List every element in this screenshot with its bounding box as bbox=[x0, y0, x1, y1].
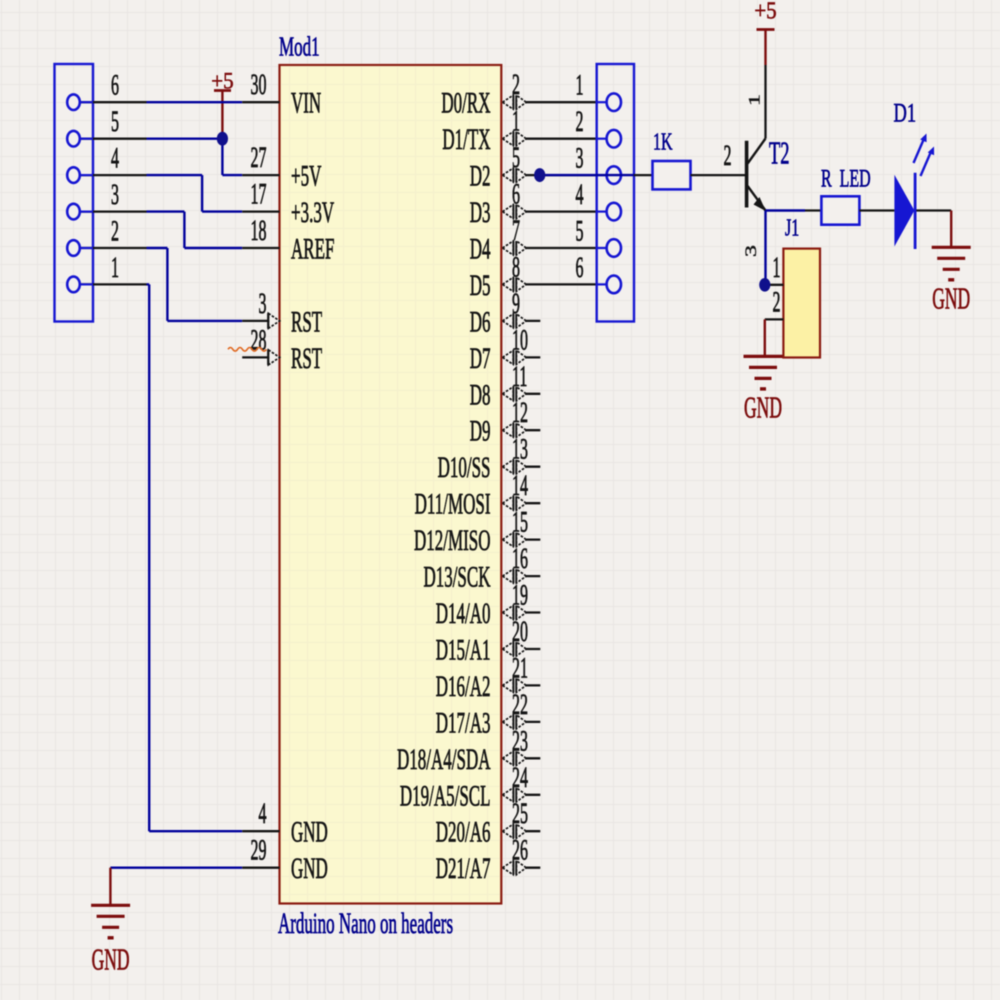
svg-text:6: 6 bbox=[576, 252, 584, 284]
svg-text:2: 2 bbox=[773, 287, 781, 319]
power +5 symbol (right) bbox=[754, 0, 776, 65]
svg-text:17: 17 bbox=[251, 179, 267, 211]
svg-text:21: 21 bbox=[512, 653, 528, 685]
svg-text:5: 5 bbox=[111, 106, 119, 138]
svg-text:D12/MISO: D12/MISO bbox=[414, 524, 490, 557]
svg-text:20: 20 bbox=[512, 616, 528, 648]
svg-text:D11/MOSI: D11/MOSI bbox=[415, 488, 491, 521]
Mod1 pin 7 D4 bbox=[470, 215, 597, 266]
Mod1 pin 6 D3 bbox=[470, 179, 597, 230]
wire conn pin5 to +5 junction bbox=[147, 137, 223, 139]
Mod1 pin 17 +3.3V bbox=[242, 179, 334, 230]
wire junction to +5V pin bbox=[222, 139, 242, 175]
wire T2 emitter down to J1 pin1 bbox=[764, 211, 766, 285]
svg-text:7: 7 bbox=[512, 215, 520, 247]
Mod1 pin 15 D12/MISO bbox=[414, 507, 540, 558]
svg-text:15: 15 bbox=[512, 507, 528, 539]
svg-text:D5: D5 bbox=[470, 269, 491, 302]
ground J1 bbox=[744, 356, 783, 424]
svg-text:12: 12 bbox=[512, 397, 528, 429]
Mod1 pin 23 D18/A4/SDA bbox=[397, 725, 540, 776]
svg-text:6: 6 bbox=[111, 70, 119, 102]
left connector pin 5 bbox=[67, 106, 146, 146]
svg-text:+5: +5 bbox=[211, 68, 233, 94]
Mod1 pin 16 D13/SCK bbox=[423, 543, 540, 594]
Mod1 pin 4 GND bbox=[242, 798, 328, 849]
Mod1 pin 21 D16/A2 bbox=[436, 653, 541, 704]
module body inner grid show-through bbox=[281, 66, 500, 902]
J1 pin 1 bbox=[765, 252, 784, 285]
Mod1 pin 5 D2 bbox=[470, 142, 597, 193]
wire D2 net to 1K resistor bbox=[540, 174, 653, 176]
svg-text:26: 26 bbox=[512, 835, 528, 867]
svg-text:1: 1 bbox=[111, 252, 119, 284]
svg-text:22: 22 bbox=[512, 689, 528, 721]
right connector pin 2 bbox=[576, 106, 621, 147]
svg-text:11: 11 bbox=[512, 361, 527, 393]
Mod1 pin 9 D6 bbox=[470, 288, 541, 339]
svg-text:+5: +5 bbox=[754, 0, 776, 24]
svg-text:D1/TX: D1/TX bbox=[442, 123, 490, 156]
svg-text:D0/RX: D0/RX bbox=[441, 87, 490, 120]
connector P1 (left 6-pin header) body bbox=[55, 64, 94, 322]
left connector pin 2 bbox=[67, 216, 146, 256]
wire conn pin6 to VIN bbox=[147, 101, 243, 103]
wire R_LED to LED anode bbox=[859, 209, 894, 211]
resistor 1K bbox=[653, 127, 691, 189]
svg-text:1K: 1K bbox=[653, 127, 673, 156]
svg-text:+3.3V: +3.3V bbox=[291, 196, 334, 229]
Mod1 pin 18 AREF bbox=[242, 215, 334, 266]
error marker squiggle under pin 28 bbox=[228, 348, 266, 352]
power +5 symbol (left) bbox=[211, 68, 233, 139]
Mod1 pin 11 D8 bbox=[470, 361, 541, 412]
svg-text:RST: RST bbox=[291, 306, 322, 339]
svg-text:D8: D8 bbox=[470, 379, 491, 412]
Mod1 pin 29 GND bbox=[242, 835, 328, 886]
svg-text:GND: GND bbox=[744, 392, 782, 425]
svg-text:D16/A2: D16/A2 bbox=[436, 670, 491, 703]
svg-text:GND: GND bbox=[291, 852, 328, 885]
svg-text:GND: GND bbox=[932, 283, 970, 316]
right connector pin 5 bbox=[576, 216, 621, 257]
Mod1 pin 28 RST bbox=[242, 325, 322, 376]
left connector pin 3 bbox=[67, 179, 146, 219]
svg-text:R LED: R LED bbox=[821, 164, 871, 193]
svg-text:3: 3 bbox=[111, 179, 119, 211]
svg-text:27: 27 bbox=[251, 142, 267, 174]
svg-text:GND: GND bbox=[291, 816, 328, 849]
svg-text:D3: D3 bbox=[470, 196, 491, 229]
junction node D2 bbox=[534, 168, 545, 182]
right connector pin 3 bbox=[576, 143, 621, 184]
svg-text:D4: D4 bbox=[470, 233, 491, 266]
svg-text:3: 3 bbox=[259, 288, 267, 320]
svg-text:D10/SS: D10/SS bbox=[438, 451, 491, 484]
svg-text:D2: D2 bbox=[470, 160, 491, 193]
wire 1K to T2 base bbox=[691, 174, 747, 176]
svg-text:5: 5 bbox=[576, 216, 584, 248]
svg-text:3: 3 bbox=[576, 143, 584, 175]
Mod1 pin 22 D17/A3 bbox=[436, 689, 541, 740]
Mod1 pin 27 +5V bbox=[242, 142, 322, 193]
svg-text:24: 24 bbox=[512, 762, 528, 794]
left connector pin 4 bbox=[67, 143, 146, 183]
right connector pin 1 bbox=[576, 70, 621, 111]
connector P2 (right 6-pin header) body bbox=[597, 64, 634, 322]
right connector pin 6 bbox=[576, 252, 621, 293]
wire conn pin4 to +3.3V pin bbox=[147, 175, 243, 212]
Mod1 pin 30 VIN bbox=[242, 69, 321, 120]
svg-text:J1: J1 bbox=[785, 215, 799, 241]
Mod1 pin 2 D0/RX bbox=[441, 69, 596, 120]
svg-text:VIN: VIN bbox=[291, 87, 321, 120]
Mod1 pin 10 D7 bbox=[470, 325, 541, 376]
svg-text:Arduino Nano on headers: Arduino Nano on headers bbox=[278, 907, 453, 940]
svg-text:AREF: AREF bbox=[291, 233, 334, 266]
svg-text:D20/A6: D20/A6 bbox=[436, 816, 491, 849]
svg-text:2: 2 bbox=[512, 69, 520, 101]
svg-text:16: 16 bbox=[512, 543, 528, 575]
Mod1 pin 14 D11/MOSI bbox=[415, 470, 541, 521]
left connector pin 1 bbox=[67, 252, 146, 292]
right connector pin 4 bbox=[576, 179, 621, 220]
svg-text:1: 1 bbox=[746, 94, 763, 106]
svg-text:4: 4 bbox=[576, 179, 584, 211]
ground LED bbox=[932, 247, 971, 316]
Mod1 pin 8 D5 bbox=[470, 252, 597, 303]
svg-text:23: 23 bbox=[512, 725, 528, 757]
svg-text:4: 4 bbox=[259, 798, 267, 830]
svg-text:D1: D1 bbox=[894, 97, 917, 127]
svg-text:D14/A0: D14/A0 bbox=[436, 597, 491, 630]
svg-text:1: 1 bbox=[576, 70, 584, 102]
junction node +5/pin5 bbox=[217, 132, 228, 146]
svg-text:30: 30 bbox=[251, 69, 267, 101]
svg-text:D18/A4/SDA: D18/A4/SDA bbox=[397, 743, 491, 776]
svg-text:D6: D6 bbox=[470, 306, 491, 339]
svg-text:D19/A5/SCL: D19/A5/SCL bbox=[400, 780, 491, 813]
svg-text:13: 13 bbox=[512, 434, 528, 466]
transistor T2 (NPN) bbox=[743, 65, 766, 257]
svg-text:10: 10 bbox=[512, 325, 528, 357]
svg-text:T2: T2 bbox=[769, 135, 790, 170]
svg-text:D13/SCK: D13/SCK bbox=[423, 561, 490, 594]
svg-text:Mod1: Mod1 bbox=[279, 32, 320, 62]
wire conn pin3 to AREF pin bbox=[147, 212, 243, 248]
J1 pin 2 bbox=[765, 287, 784, 320]
svg-text:2: 2 bbox=[724, 140, 732, 172]
Mod1 pin 12 D9 bbox=[470, 397, 541, 448]
svg-text:RST: RST bbox=[291, 342, 322, 375]
svg-text:19: 19 bbox=[512, 580, 528, 612]
wire conn pin2 to RST pin bbox=[147, 248, 243, 321]
svg-text:4: 4 bbox=[111, 143, 119, 175]
svg-text:1: 1 bbox=[773, 252, 781, 284]
svg-text:6: 6 bbox=[512, 179, 520, 211]
junction node J1 pin1 bbox=[759, 278, 770, 292]
svg-text:25: 25 bbox=[512, 798, 528, 830]
svg-text:29: 29 bbox=[251, 835, 267, 867]
svg-text:3: 3 bbox=[743, 245, 760, 257]
wire GND29 to bottom-left ground bbox=[110, 868, 242, 906]
wire J1 pin2 to ground bbox=[764, 319, 766, 356]
LED D1 bbox=[894, 134, 934, 250]
Mod1 pin 1 D1/TX bbox=[442, 106, 596, 157]
svg-text:D7: D7 bbox=[470, 342, 491, 375]
svg-text:D21/A7: D21/A7 bbox=[436, 852, 491, 885]
Mod1 pin 20 D15/A1 bbox=[436, 616, 541, 667]
svg-text:D17/A3: D17/A3 bbox=[436, 707, 491, 740]
ground bottom-left bbox=[91, 905, 130, 977]
Mod1 pin 25 D20/A6 bbox=[436, 798, 541, 849]
svg-text:8: 8 bbox=[512, 252, 520, 284]
wire conn pin1 to GND pin 4 bbox=[147, 284, 243, 831]
svg-text:9: 9 bbox=[512, 288, 520, 320]
Mod1 pin 19 D14/A0 bbox=[436, 580, 541, 631]
wire LED cathode to ground bbox=[916, 211, 951, 248]
svg-text:14: 14 bbox=[512, 470, 528, 502]
Mod1 pin 3 RST bbox=[242, 288, 322, 339]
svg-text:2: 2 bbox=[111, 216, 119, 248]
wire emitter pin black to resistor bbox=[805, 209, 821, 211]
connector J1 body bbox=[783, 249, 820, 358]
Mod1 pin 26 D21/A7 bbox=[436, 835, 541, 886]
left connector pin 6 bbox=[67, 70, 146, 110]
Mod1 pin 13 D10/SS bbox=[438, 434, 541, 485]
svg-text:+5V: +5V bbox=[291, 160, 322, 193]
svg-text:28: 28 bbox=[251, 325, 267, 357]
module Mod1 Arduino Nano body bbox=[280, 65, 502, 904]
svg-text:D15/A1: D15/A1 bbox=[436, 634, 491, 667]
svg-text:D9: D9 bbox=[470, 415, 491, 448]
Mod1 pin 24 D19/A5/SCL bbox=[400, 762, 540, 813]
svg-text:18: 18 bbox=[251, 215, 267, 247]
wire T2 emitter to R_LED bbox=[766, 209, 806, 211]
svg-text:GND: GND bbox=[92, 944, 130, 977]
svg-text:1: 1 bbox=[512, 106, 520, 138]
svg-text:5: 5 bbox=[512, 142, 520, 174]
svg-text:2: 2 bbox=[576, 106, 584, 138]
resistor R_LED bbox=[821, 164, 871, 225]
